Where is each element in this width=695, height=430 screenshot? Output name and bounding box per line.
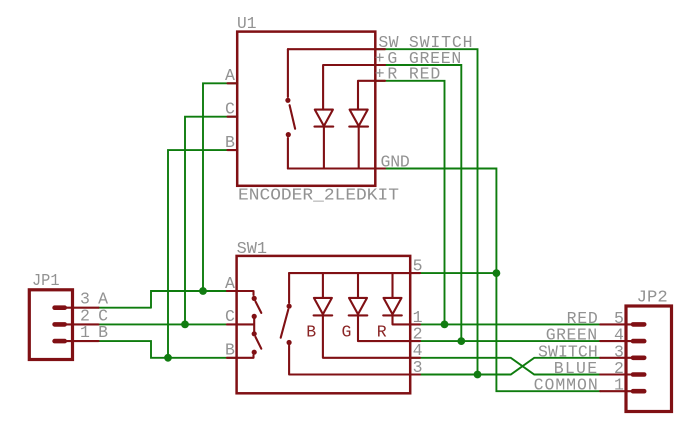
U1 internal LED red anode wire [358, 81, 375, 110]
SW1 pin 3 stub [410, 373, 420, 375]
wire net GREEN [375, 65, 461, 341]
U1 pin +G stub [375, 64, 385, 66]
svg-text:1: 1 [614, 376, 624, 395]
svg-text:B: B [98, 323, 108, 342]
svg-text:ENCODER_2LEDKIT: ENCODER_2LEDKIT [238, 186, 399, 205]
junction node RED [441, 321, 449, 329]
U1 internal LED green anode wire [323, 65, 375, 110]
U1 pin +R stub [375, 80, 385, 82]
junction node GND [493, 269, 501, 277]
wire net RED row [410, 323, 600, 325]
wire net B JP1 to SW1 [99, 341, 237, 358]
svg-text:R: R [377, 323, 387, 342]
switch SW1 box [237, 256, 411, 393]
svg-text:SW1: SW1 [237, 239, 268, 258]
svg-text:B: B [306, 323, 316, 342]
svg-text:JP1: JP1 [32, 271, 60, 290]
wire net SWITCH vertical [375, 49, 477, 374]
wire net C JP1 to SW1 [99, 323, 237, 325]
SW1 contact A [237, 291, 262, 313]
svg-text:COMMON: COMMON [534, 376, 598, 395]
svg-text:G: G [342, 323, 352, 342]
U1 pin GND stub [375, 167, 385, 169]
SW1 pin 1 stub [410, 323, 420, 325]
SW1 pin C stub [227, 323, 237, 325]
JP2 pin 4 [600, 340, 644, 342]
JP1 pin 1 [55, 340, 99, 342]
wire net B from U1 pin B [168, 150, 237, 358]
junction node GREEN [457, 337, 465, 345]
wire net A into SW1 pin A [99, 291, 237, 308]
junction node C [181, 321, 189, 329]
U1 LED D2 (red) [349, 110, 368, 169]
U1 pin SW stub [375, 48, 385, 50]
SW1 LED R [383, 298, 410, 325]
SW1 pin 2 stub [410, 340, 420, 342]
wire net C from U1 pin C [185, 117, 237, 325]
JP2 pin 3 [600, 357, 644, 359]
wire net GND [375, 169, 600, 392]
svg-text:U1: U1 [237, 14, 257, 33]
wire net A from U1 pin A [203, 83, 237, 291]
SW1 pin A stub [227, 290, 237, 292]
JP2 pin 2 [600, 373, 644, 375]
U1 pin B stub [228, 149, 238, 151]
wire net GND SW1 pin5 [410, 272, 496, 274]
junction node A [199, 287, 207, 295]
connector JP1 box [29, 290, 72, 360]
SW1 pin 4 stub [410, 357, 420, 359]
IC U1 encoder box [237, 32, 375, 186]
SW1 contact C [237, 314, 262, 349]
U1 internal GND bus [288, 167, 375, 169]
wire net SWITCH row with crossover [410, 358, 600, 375]
JP2 pin 5 [600, 323, 644, 325]
connector JP2 box [626, 306, 672, 412]
U1 pin C stub [228, 116, 238, 118]
SW1 LED B [314, 298, 411, 358]
junction node B [164, 354, 172, 362]
svg-text:A: A [225, 274, 235, 293]
SW1 LED G [349, 298, 411, 341]
JP1 pin 2 [55, 323, 99, 325]
SW1 LED G anode wire [357, 273, 359, 298]
SW1 main switch arm [281, 273, 411, 374]
wire net BLUE row with crossover [410, 358, 600, 375]
U1 internal top bus (SW) [288, 48, 375, 50]
wire net GREEN row [410, 340, 600, 342]
U1 pin A stub [228, 82, 238, 84]
U1 internal switch S [285, 49, 295, 168]
svg-text:B: B [225, 133, 235, 152]
U1 LED D1 (green) [315, 110, 334, 169]
svg-text:JP2: JP2 [637, 288, 668, 307]
SW1 LED B anode wire [322, 273, 324, 298]
SW1 pin B stub [227, 357, 237, 359]
svg-text:1: 1 [80, 323, 90, 342]
wire net RED [375, 81, 444, 325]
SW1 contact B [237, 350, 257, 358]
SW1 pin 5 stub [410, 272, 420, 274]
SW1 internal top bus [289, 272, 410, 274]
JP1 pin 3 [55, 307, 99, 309]
JP2 pin 1 [600, 390, 644, 392]
SW1 LED R anode wire [391, 273, 393, 298]
junction node SWITCH [474, 371, 482, 379]
